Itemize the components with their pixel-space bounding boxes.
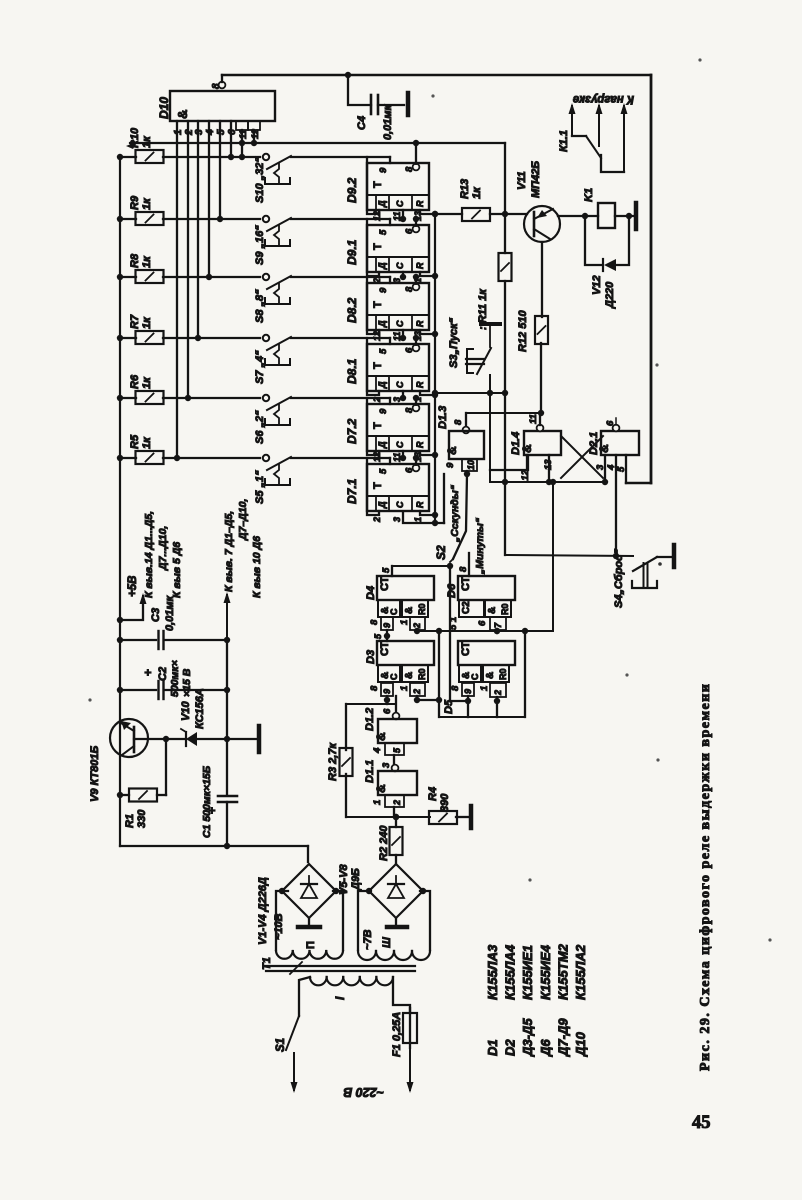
- svg-text:1к: 1к: [141, 197, 153, 210]
- svg-text:+: +: [141, 669, 155, 676]
- svg-text:C: C: [389, 608, 399, 615]
- svg-text:Д7...Д10,: Д7...Д10,: [157, 526, 169, 571]
- svg-text:&: &: [374, 732, 388, 741]
- svg-text:D1.4: D1.4: [510, 432, 522, 455]
- svg-text:3: 3: [595, 464, 606, 470]
- svg-text:C: C: [395, 200, 405, 207]
- svg-text:К155ТМ2: К155ТМ2: [555, 943, 570, 1000]
- svg-text:8: 8: [458, 566, 469, 572]
- svg-text:5: 5: [378, 348, 389, 354]
- svg-text:8: 8: [404, 286, 415, 292]
- svg-text:D1.2: D1.2: [364, 708, 376, 731]
- svg-text:390: 390: [439, 793, 451, 812]
- svg-text:Д220: Д220: [604, 281, 616, 309]
- svg-text:0,01мк: 0,01мк: [382, 103, 394, 140]
- svg-text:4: 4: [205, 129, 216, 136]
- svg-text:D1: D1: [485, 1039, 500, 1056]
- svg-text:СТ: СТ: [379, 641, 391, 656]
- svg-text:R: R: [415, 200, 425, 207]
- svg-text:C2: C2: [461, 601, 472, 614]
- svg-text:9: 9: [445, 462, 456, 468]
- svg-text:5: 5: [381, 567, 392, 573]
- svg-text:5: 5: [392, 747, 402, 753]
- svg-text:R: R: [415, 262, 425, 269]
- svg-text:К1.1: К1.1: [558, 130, 570, 152]
- svg-text:R7: R7: [129, 314, 141, 329]
- svg-text:1: 1: [372, 800, 383, 805]
- svg-text:C: C: [395, 320, 405, 327]
- svg-text:R4: R4: [427, 787, 439, 801]
- svg-text:1к: 1к: [141, 376, 153, 389]
- svg-text:S7 „4“: S7 „4“: [254, 350, 266, 384]
- svg-text:8: 8: [211, 83, 222, 89]
- svg-text:T: T: [372, 181, 384, 188]
- svg-text:5: 5: [373, 633, 383, 639]
- svg-text:45: 45: [692, 1113, 711, 1133]
- svg-text:6: 6: [404, 347, 415, 353]
- svg-text:~10В: ~10В: [273, 913, 285, 940]
- svg-text:К155ЛА3: К155ЛА3: [485, 944, 500, 1000]
- svg-text:C: C: [395, 441, 405, 448]
- svg-text:К выв.14 Д1...Д5,: К выв.14 Д1...Д5,: [143, 511, 155, 598]
- svg-text:&: &: [404, 607, 415, 614]
- svg-text:0,01мк: 0,01мк: [164, 594, 176, 631]
- svg-text:R: R: [415, 501, 425, 508]
- svg-text:1: 1: [173, 129, 184, 135]
- svg-text:К155ЛА4: К155ЛА4: [503, 944, 518, 1000]
- svg-text:1к: 1к: [141, 436, 153, 449]
- svg-text:5 1: 5 1: [448, 617, 459, 630]
- svg-text:„Минуты“: „Минуты“: [474, 517, 486, 575]
- svg-text:3: 3: [194, 129, 205, 135]
- svg-text:S8 „8“: S8 „8“: [254, 289, 266, 323]
- svg-text:8: 8: [369, 619, 380, 625]
- svg-text:7: 7: [493, 622, 503, 628]
- svg-text:Ш: Ш: [381, 937, 393, 948]
- svg-text:Д: Д: [377, 200, 387, 208]
- svg-text:V12: V12: [591, 275, 603, 295]
- svg-text:S3„Пуск“: S3„Пуск“: [448, 317, 460, 368]
- svg-text:Д: Д: [377, 501, 387, 509]
- svg-text:&: &: [485, 672, 496, 679]
- svg-text:1: 1: [479, 686, 490, 691]
- svg-text:1к: 1к: [141, 135, 153, 148]
- svg-text:6: 6: [477, 620, 488, 626]
- svg-text:R0: R0: [417, 668, 427, 680]
- svg-text:СТ: СТ: [379, 576, 391, 591]
- svg-text:V11: V11: [516, 171, 528, 190]
- svg-text:11: 11: [528, 414, 539, 424]
- svg-text:Д7–Д10,: Д7–Д10,: [237, 498, 249, 541]
- svg-text:„Сскунды“: „Сскунды“: [449, 484, 461, 543]
- svg-text:&: &: [175, 110, 190, 119]
- svg-text:T: T: [372, 362, 384, 369]
- svg-text:9: 9: [378, 287, 389, 293]
- svg-text:К155ИЕ4: К155ИЕ4: [538, 944, 553, 1000]
- svg-text:R: R: [415, 320, 425, 327]
- svg-text:R5: R5: [129, 434, 141, 449]
- svg-text:1: 1: [399, 686, 410, 691]
- svg-text:D8.2: D8.2: [345, 297, 359, 323]
- svg-text:8: 8: [404, 407, 415, 413]
- svg-text:8: 8: [404, 166, 415, 172]
- svg-text:8: 8: [453, 419, 464, 425]
- svg-text:R: R: [415, 441, 425, 448]
- svg-text:Д: Д: [377, 441, 387, 449]
- svg-text:9: 9: [378, 167, 389, 173]
- svg-text:&: &: [487, 607, 498, 614]
- svg-text:R: R: [415, 381, 425, 388]
- svg-text:D1.3: D1.3: [437, 406, 449, 429]
- svg-text:500мк×: 500мк×: [169, 660, 181, 697]
- svg-text:K1: K1: [583, 188, 595, 202]
- svg-text:D2.1: D2.1: [588, 432, 600, 455]
- svg-text:Д7-Д9: Д7-Д9: [555, 1018, 570, 1057]
- svg-text:R13: R13: [459, 179, 471, 199]
- svg-text:D10: D10: [157, 97, 171, 119]
- svg-text:R0: R0: [500, 603, 510, 615]
- svg-text:СТ: СТ: [460, 576, 472, 591]
- svg-text:I: I: [333, 996, 347, 1000]
- svg-text:330: 330: [136, 809, 148, 828]
- svg-text:9: 9: [378, 408, 389, 414]
- svg-text:3: 3: [392, 517, 402, 522]
- svg-text:D9.1: D9.1: [345, 239, 359, 265]
- svg-text:D2: D2: [503, 1039, 518, 1056]
- svg-text:D6: D6: [446, 583, 458, 598]
- svg-text:4: 4: [372, 747, 383, 754]
- svg-text:10: 10: [466, 460, 476, 470]
- svg-text:S2: S2: [434, 545, 448, 560]
- svg-text:Рис. 29. Схема цифрового реле: Рис. 29. Схема цифрового реле выдержки в…: [698, 683, 713, 1071]
- svg-text:12: 12: [372, 331, 382, 341]
- svg-text:R1: R1: [124, 814, 136, 828]
- svg-text:Д: Д: [377, 262, 387, 270]
- svg-text:Д: Д: [377, 381, 387, 389]
- svg-text:&: &: [404, 672, 415, 679]
- svg-text:6: 6: [605, 420, 616, 426]
- svg-text:&: &: [374, 784, 388, 793]
- svg-text:S10 „32“: S10 „32“: [254, 157, 266, 203]
- svg-text:8: 8: [450, 685, 461, 691]
- svg-text:5: 5: [378, 468, 389, 474]
- svg-text:6: 6: [404, 228, 415, 234]
- svg-text:R6: R6: [129, 374, 141, 389]
- svg-text:П: П: [305, 941, 317, 949]
- svg-text:D9.2: D9.2: [345, 177, 359, 203]
- svg-text:СТ: СТ: [460, 641, 472, 656]
- svg-text:R3 2,7к: R3 2,7к: [327, 742, 339, 781]
- svg-text:C: C: [395, 381, 405, 388]
- svg-text:C: C: [470, 673, 480, 680]
- svg-text:&: &: [445, 446, 459, 455]
- svg-text:T: T: [372, 301, 384, 308]
- svg-text:C: C: [395, 262, 405, 269]
- svg-text:C: C: [389, 673, 399, 680]
- svg-text:5: 5: [616, 466, 627, 472]
- svg-text:T: T: [372, 243, 384, 250]
- svg-text:R0: R0: [417, 603, 427, 615]
- svg-text:S6 „2“: S6 „2“: [254, 410, 266, 444]
- svg-text:9: 9: [463, 689, 473, 694]
- svg-text:C4: C4: [356, 116, 368, 130]
- svg-text:5: 5: [378, 229, 389, 235]
- svg-text:1к: 1к: [141, 316, 153, 329]
- svg-text:6: 6: [404, 467, 415, 473]
- svg-text:13: 13: [543, 459, 554, 470]
- svg-text:+5В: +5В: [127, 576, 139, 597]
- svg-text:1: 1: [413, 517, 423, 522]
- svg-text:F1 0,25А: F1 0,25А: [391, 1012, 403, 1057]
- svg-text:C3: C3: [150, 608, 162, 622]
- svg-text:R0: R0: [498, 668, 508, 680]
- svg-text:К нагрузке: К нагрузке: [572, 93, 634, 105]
- svg-text:C2: C2: [157, 667, 169, 681]
- svg-text:5: 5: [216, 129, 227, 135]
- svg-text:С1 500мк×15Б: С1 500мк×15Б: [201, 765, 213, 838]
- svg-text:S4„Сброс“: S4„Сброс“: [613, 549, 625, 608]
- svg-text:1к: 1к: [471, 186, 483, 199]
- svg-text:R9: R9: [129, 195, 141, 210]
- svg-text:1: 1: [399, 620, 410, 625]
- svg-text:D8.1: D8.1: [345, 358, 359, 384]
- svg-text:D3: D3: [365, 650, 377, 664]
- svg-text:К выв. 7 Д1–Д5,: К выв. 7 Д1–Д5,: [223, 511, 235, 592]
- svg-text:3: 3: [381, 762, 392, 768]
- svg-text:R2 240: R2 240: [378, 825, 390, 861]
- svg-text:2: 2: [493, 690, 503, 696]
- svg-text:D1.1: D1.1: [364, 760, 376, 783]
- svg-text:2: 2: [372, 517, 382, 523]
- svg-text:К155ЛА2: К155ЛА2: [573, 944, 588, 1000]
- svg-text:D7.1: D7.1: [345, 478, 359, 504]
- svg-text:Д10: Д10: [573, 1031, 588, 1057]
- svg-text:1к: 1к: [141, 255, 153, 268]
- svg-text:К выв 5 Д6: К выв 5 Д6: [171, 542, 183, 598]
- svg-text:МП42Б: МП42Б: [530, 161, 542, 198]
- svg-text:2: 2: [392, 800, 402, 806]
- svg-text:S5 „1“: S5 „1“: [254, 470, 266, 504]
- svg-text:К выв 10 Д6: К выв 10 Д6: [251, 536, 263, 598]
- svg-text:S9 „16“: S9 „16“: [254, 225, 266, 265]
- svg-text:D4: D4: [365, 586, 377, 600]
- svg-text:V10: V10: [180, 701, 192, 721]
- svg-text:&: &: [520, 444, 534, 453]
- svg-text:C: C: [395, 501, 405, 508]
- svg-text:КС156А: КС156А: [194, 688, 206, 729]
- svg-text:Д9Б: Д9Б: [350, 868, 362, 891]
- svg-text:2: 2: [412, 689, 422, 695]
- svg-text:V9 КТ801Б: V9 КТ801Б: [89, 746, 101, 802]
- svg-text:Д3-Д5: Д3-Д5: [520, 1018, 535, 1057]
- svg-text:9: 9: [382, 623, 392, 628]
- svg-text:R8: R8: [129, 253, 141, 268]
- svg-text:V1-V4 Д226Д: V1-V4 Д226Д: [257, 877, 269, 945]
- svg-text:D7.2: D7.2: [345, 418, 359, 444]
- svg-text:T: T: [372, 482, 384, 489]
- svg-text:Т1: Т1: [261, 957, 273, 970]
- svg-text:~7В: ~7В: [362, 929, 374, 950]
- svg-text:Д6: Д6: [538, 1039, 553, 1057]
- svg-text:S1: S1: [275, 1038, 287, 1052]
- svg-text:6: 6: [382, 708, 393, 714]
- svg-text:9: 9: [382, 689, 392, 694]
- svg-text:×15 В: ×15 В: [181, 668, 193, 697]
- svg-text:Д: Д: [377, 320, 387, 328]
- svg-text:К155ИЕ1: К155ИЕ1: [520, 945, 535, 1000]
- svg-text:8: 8: [369, 685, 380, 691]
- svg-text:R12 510: R12 510: [517, 310, 529, 352]
- svg-text:T: T: [372, 422, 384, 429]
- svg-text:~220 В: ~220 В: [343, 1085, 384, 1099]
